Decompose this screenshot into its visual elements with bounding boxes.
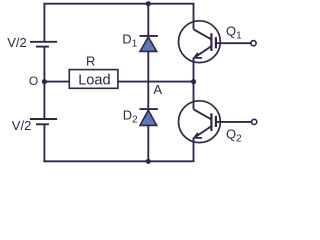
terminal Q1	[251, 41, 256, 46]
wire diode branch lower	[147, 126, 149, 162]
junction bottom rail / D2	[146, 159, 151, 164]
wire bottom rail	[44, 160, 193, 162]
battery B2 V/2 (lower)	[30, 119, 57, 124]
wire left leg upper	[43, 4, 45, 42]
battery B1 V/2 (upper)	[30, 42, 57, 47]
label Load	[78, 72, 110, 88]
node O junction dot	[42, 79, 47, 84]
label D2	[123, 108, 138, 126]
svg-text:V/2: V/2	[7, 35, 27, 50]
label Q1	[226, 24, 242, 42]
wire load to node A	[118, 81, 194, 83]
svg-text:D1: D1	[122, 32, 137, 50]
terminal Q2	[252, 119, 257, 124]
wire left leg lower	[43, 124, 45, 161]
svg-text:R: R	[86, 54, 95, 69]
wire diode branch middle	[147, 52, 149, 108]
label V/2 lower	[12, 118, 32, 133]
svg-text:D2: D2	[123, 108, 138, 126]
wire diode branch upper	[147, 4, 149, 35]
diode D2	[140, 109, 158, 125]
label V/2 upper	[7, 35, 27, 50]
svg-text:Load: Load	[78, 72, 110, 88]
label Q2	[226, 127, 242, 145]
transistor Q1	[179, 4, 251, 82]
wire left leg middle	[43, 47, 45, 119]
label D1	[122, 32, 137, 50]
resistor R load box	[69, 70, 118, 89]
junction top rail / D1	[146, 1, 151, 6]
svg-text:V/2: V/2	[12, 118, 32, 133]
transistor Q2	[179, 82, 252, 162]
label A	[153, 82, 162, 97]
wire node O to load	[44, 81, 69, 83]
diode D1	[140, 36, 158, 52]
label R	[86, 54, 95, 69]
node A junction dot	[191, 79, 196, 84]
label O	[29, 74, 38, 88]
svg-text:Q2: Q2	[226, 127, 242, 145]
svg-text:A: A	[153, 82, 162, 97]
wire top rail	[44, 3, 193, 5]
svg-text:Q1: Q1	[226, 24, 242, 42]
svg-text:O: O	[29, 74, 38, 88]
